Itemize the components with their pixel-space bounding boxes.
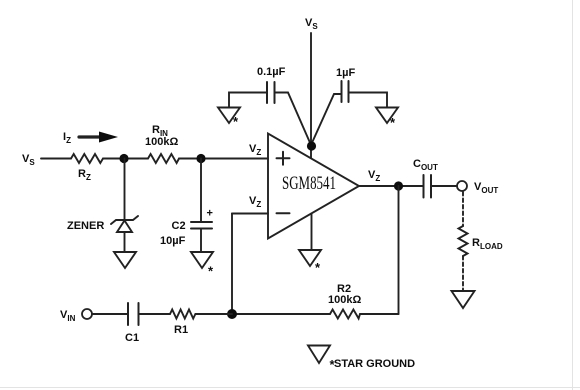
wire RIN to op-amp plus input — [179, 158, 268, 160]
svg-text:VS: VS — [305, 17, 318, 31]
wire feedback vertical — [231, 214, 233, 315]
svg-text:VIN: VIN — [60, 309, 76, 323]
wire C2 branch down — [200, 159, 202, 223]
svg-text:ZENER: ZENER — [67, 220, 104, 232]
node VZ plus label — [249, 143, 261, 157]
ground star op-amp — [299, 250, 321, 266]
capacitor C1 plates — [127, 303, 129, 325]
node output junction — [394, 181, 403, 190]
node VS supply junction — [307, 141, 316, 150]
svg-text:RZ: RZ — [78, 168, 91, 182]
wire dashed VOUT to RLOAD — [462, 192, 464, 226]
wire 1uF right lead — [349, 93, 388, 108]
wire zener to ground — [124, 232, 126, 252]
svg-text:+: + — [207, 208, 213, 220]
resistor R2 — [330, 310, 360, 319]
wire C2 to ground — [200, 229, 202, 253]
capacitor 0.1uF value label — [257, 66, 286, 78]
ground star main STAR GROUND — [308, 346, 330, 364]
node VIN terminal — [82, 309, 92, 319]
svg-text:*: * — [315, 260, 321, 275]
wire R2 left lead — [232, 313, 330, 315]
node VOUT terminal — [457, 181, 467, 191]
resistor RZ — [71, 154, 103, 163]
current arrow IZ — [63, 131, 71, 145]
svg-text:VS: VS — [22, 153, 35, 167]
wire dashed RLOAD to ground — [462, 256, 464, 291]
node VZ minus label — [249, 195, 261, 209]
wire R2 right lead — [360, 313, 399, 315]
node VS left terminal label — [22, 153, 35, 167]
node C2 junction — [196, 154, 205, 163]
ground RLOAD — [452, 291, 475, 308]
node VZ output label — [368, 169, 380, 183]
wire VS supply vertical — [310, 33, 312, 158]
svg-text:100kΩ: 100kΩ — [328, 294, 361, 306]
svg-text:VZ: VZ — [249, 195, 261, 209]
svg-text:SGM8541: SGM8541 — [282, 174, 336, 194]
capacitor C 1uF plates — [341, 81, 343, 102]
wire op-amp power down — [311, 214, 313, 251]
op-amp U1 SGM8541 — [268, 134, 359, 239]
svg-text:C1: C1 — [125, 332, 139, 344]
resistor R1 — [170, 310, 195, 319]
wire left rail — [41, 158, 71, 160]
svg-text:10µF: 10µF — [160, 235, 186, 247]
svg-text:*: * — [208, 264, 214, 279]
svg-text:IZ: IZ — [63, 131, 71, 145]
resistor RLOAD — [459, 226, 468, 256]
wire COUT to VOUT — [431, 185, 457, 187]
wire VIN to C1 — [92, 313, 128, 315]
svg-text:1µF: 1µF — [336, 67, 355, 79]
capacitor COUT plates — [423, 175, 425, 198]
node VIN terminal label — [60, 309, 76, 323]
svg-text:VZ: VZ — [249, 143, 261, 157]
svg-text:VZ: VZ — [368, 169, 380, 183]
border lines of page — [572, 0, 574, 390]
ground star C2 — [191, 252, 213, 268]
diode zener — [111, 216, 138, 224]
wire zener branch down — [124, 159, 126, 221]
wire minus input — [232, 213, 268, 215]
svg-text:*: * — [390, 115, 396, 130]
wire C1 to R1 — [139, 313, 171, 315]
svg-text:VOUT: VOUT — [474, 181, 498, 195]
svg-text:*: * — [233, 114, 239, 129]
svg-text:0.1µF: 0.1µF — [257, 66, 286, 78]
node zener junction — [119, 154, 128, 163]
svg-text:STAR GROUND: STAR GROUND — [334, 358, 415, 370]
svg-text:C2: C2 — [172, 220, 186, 232]
capacitor C2 plates — [191, 221, 212, 223]
svg-text:RLOAD: RLOAD — [472, 237, 503, 251]
wire 0.1uF right lead to VS node — [275, 93, 312, 146]
capacitor 1uF value label — [336, 67, 355, 79]
wire output to feedback node — [398, 186, 400, 314]
wire op-amp output — [359, 185, 423, 187]
node VS top label — [305, 17, 318, 31]
pin plus — [277, 157, 290, 159]
node feedback junction — [227, 309, 237, 319]
wire 1uF left lead to VS node — [311, 94, 342, 145]
wire R1 to feedback node — [195, 313, 232, 315]
resistor RIN — [148, 154, 179, 163]
ground zener — [114, 252, 136, 268]
capacitor C 0.1uF plates — [266, 82, 268, 103]
svg-text:100kΩ: 100kΩ — [145, 136, 178, 148]
wire 0.1uF left lead — [229, 93, 267, 108]
svg-text:R1: R1 — [174, 324, 188, 336]
ground star 1uF — [376, 108, 398, 124]
wire RZ to RIN — [103, 158, 148, 160]
pin minus — [277, 212, 290, 214]
svg-text:COUT: COUT — [413, 158, 438, 172]
ground star 0.1uF — [218, 108, 240, 124]
